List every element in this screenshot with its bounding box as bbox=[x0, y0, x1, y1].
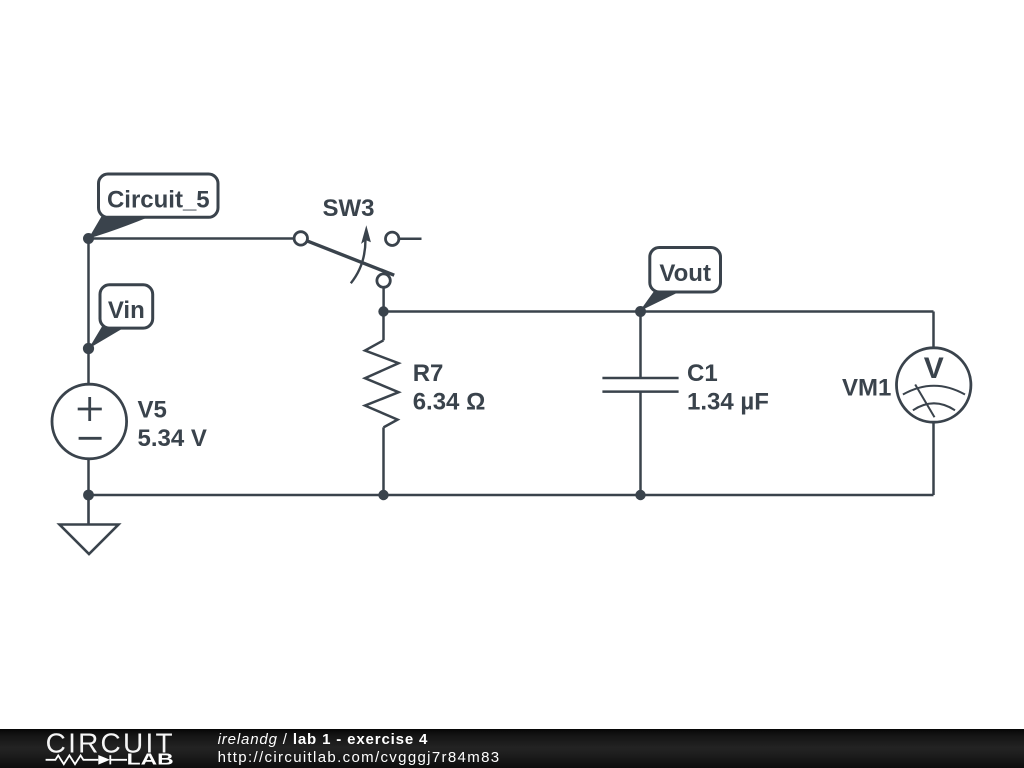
junction node at switch pole / R7 top bbox=[378, 306, 388, 316]
svg-text:6.34 Ω: 6.34 Ω bbox=[413, 389, 486, 416]
wire mid rail Vout bbox=[384, 310, 934, 313]
junction node Vout at C1 top bbox=[635, 306, 646, 317]
junction node at R7 bottom bbox=[378, 490, 388, 500]
wire bottom rail bbox=[89, 494, 934, 497]
footer bar bbox=[0, 729, 1024, 768]
svg-text:VM1: VM1 bbox=[842, 374, 891, 401]
switch SW3 bbox=[294, 225, 399, 287]
wire switch pole to node bbox=[382, 274, 385, 312]
node Circuit_5 anchor bbox=[83, 233, 94, 244]
label V5 value bbox=[138, 396, 207, 452]
node Vin anchor bbox=[83, 343, 94, 354]
voltmeter VM1 bbox=[897, 348, 971, 422]
label R7 value bbox=[413, 360, 486, 416]
ground bbox=[60, 495, 119, 554]
svg-text:1.34 µF: 1.34 µF bbox=[687, 389, 769, 416]
wire top from node A to switch left terminal bbox=[89, 237, 299, 240]
node label Vin bbox=[89, 285, 153, 349]
label C1 value bbox=[687, 360, 769, 416]
wire switch right stub bbox=[392, 238, 422, 241]
svg-text:C1: C1 bbox=[687, 360, 718, 387]
svg-text:V5: V5 bbox=[138, 396, 167, 423]
svg-text:LAB: LAB bbox=[127, 751, 174, 768]
svg-text:Vout: Vout bbox=[659, 260, 711, 287]
wire right vertical to VM1 bbox=[932, 312, 935, 496]
capacitor C1 bbox=[602, 312, 678, 496]
svg-text:http://circuitlab.com/cvgggj7r: http://circuitlab.com/cvgggj7r84m83 bbox=[218, 749, 499, 766]
svg-text:V: V bbox=[924, 352, 944, 385]
svg-text:R7: R7 bbox=[413, 360, 444, 387]
svg-text:5.34 V: 5.34 V bbox=[138, 425, 207, 452]
node label Circuit_5 bbox=[89, 174, 219, 239]
svg-text:Circuit_5: Circuit_5 bbox=[107, 187, 210, 214]
svg-text:Vin: Vin bbox=[108, 297, 145, 324]
svg-text:irelandg / lab 1 - exercise 4: irelandg / lab 1 - exercise 4 bbox=[218, 731, 428, 748]
wire left vertical Vin bbox=[87, 239, 90, 496]
resistor R7 bbox=[365, 312, 399, 496]
junction node at ground rail left bbox=[83, 490, 94, 501]
svg-text:SW3: SW3 bbox=[323, 195, 375, 222]
junction node at C1 bottom bbox=[635, 490, 645, 500]
node label Vout bbox=[640, 248, 721, 312]
voltage source V5 bbox=[52, 384, 127, 459]
CircuitLab logo bbox=[46, 727, 174, 768]
